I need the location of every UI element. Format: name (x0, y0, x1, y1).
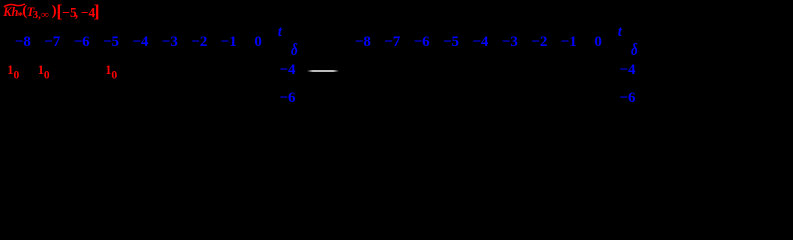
left panel tick -2 (191, 35, 207, 50)
right panel tick -7 (384, 35, 400, 50)
left panel row label -4 (279, 63, 295, 78)
left panel tick -5 (103, 35, 119, 50)
title widetilde accent over Kh (3, 3, 26, 8)
title open paren (22, 4, 27, 19)
right panel tick -3 (502, 35, 518, 50)
red entry 1_0 at column 3 (105, 64, 117, 81)
right panel tick -6 (414, 35, 430, 50)
title subscript 3,inf (33, 10, 49, 21)
right panel t axis label (618, 25, 622, 40)
right panel delta axis label (631, 42, 638, 59)
right panel tick -4 (472, 35, 488, 50)
right panel tick -2 (531, 35, 547, 50)
gray separator line (307, 70, 339, 72)
title minus five (62, 6, 76, 20)
left panel tick -3 (162, 35, 178, 50)
left panel t axis label (278, 25, 282, 40)
title minus four (81, 6, 95, 20)
right panel tick -5 (443, 35, 459, 50)
red entry 1_0 at column 1 (7, 64, 19, 81)
right panel tick 0 (594, 35, 602, 50)
right panel row label -6 (619, 91, 635, 106)
title close bracket (94, 2, 100, 20)
left panel tick -7 (44, 35, 60, 50)
left panel tick -6 (74, 35, 90, 50)
title close paren (52, 4, 57, 19)
title Kh italic (3, 6, 18, 19)
right panel tick -1 (561, 35, 577, 50)
left panel delta axis label (291, 42, 298, 59)
left panel tick -4 (132, 35, 148, 50)
red entry 1_0 at column 2 (38, 64, 50, 81)
title T italic (27, 6, 35, 19)
left panel row label -6 (279, 91, 295, 106)
left panel tick 0 (254, 35, 262, 50)
right panel row label -4 (619, 63, 635, 78)
title subscript star (18, 11, 24, 22)
right panel tick -8 (355, 35, 371, 50)
left panel tick -1 (221, 35, 237, 50)
title comma (75, 6, 78, 20)
left panel tick -8 (15, 35, 31, 50)
title open bracket (56, 2, 62, 20)
